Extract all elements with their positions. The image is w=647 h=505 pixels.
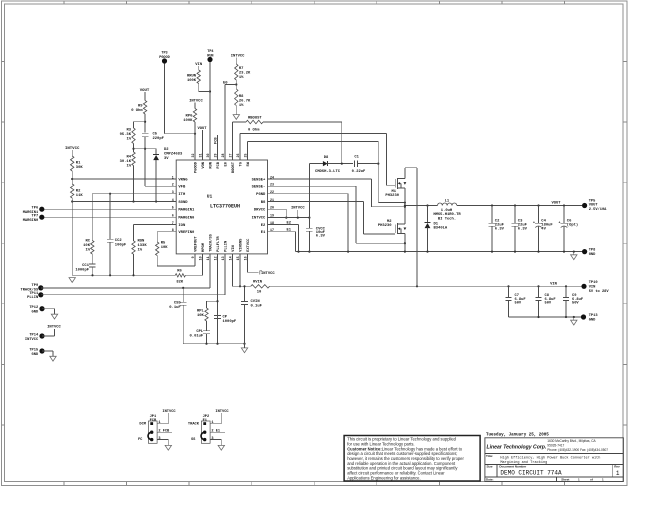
svg-text:0.01uF: 0.01uF xyxy=(190,334,204,338)
svg-text:50V: 50V xyxy=(515,301,522,305)
svg-text:BOOST: BOOST xyxy=(232,161,236,173)
svg-text:CPL: CPL xyxy=(196,330,204,334)
svg-text:Title:: Title: xyxy=(486,454,493,458)
svg-text:30: 30 xyxy=(206,154,210,158)
svg-text:15: 15 xyxy=(236,256,240,260)
svg-text:3V: 3V xyxy=(164,157,169,161)
svg-text:1%: 1% xyxy=(138,249,143,253)
svg-text:INTVCC: INTVCC xyxy=(162,410,176,414)
svg-text:GND: GND xyxy=(589,319,596,323)
svg-text:24: 24 xyxy=(270,175,274,179)
svg-text:1: 1 xyxy=(172,175,174,179)
svg-text:0 Ohm: 0 Ohm xyxy=(248,127,260,132)
svg-text:E2: E2 xyxy=(287,221,292,225)
svg-text:16: 16 xyxy=(244,256,248,260)
svg-text:TP13: TP13 xyxy=(589,314,599,318)
svg-text:2: 2 xyxy=(172,183,174,187)
svg-text:R5: R5 xyxy=(161,242,166,246)
svg-text:CC2: CC2 xyxy=(115,239,123,243)
svg-text:Document Number: Document Number xyxy=(499,465,527,469)
svg-text:FCB: FCB xyxy=(150,419,157,423)
svg-text:1: 1 xyxy=(616,470,620,477)
svg-text:5V to 28V: 5V to 28V xyxy=(589,290,610,294)
svg-text:RON: RON xyxy=(138,240,146,244)
svg-text:RRUN: RRUN xyxy=(187,75,197,79)
svg-text:RPG: RPG xyxy=(186,115,194,119)
svg-text:MARGIN0: MARGIN0 xyxy=(178,217,195,221)
svg-text:E1: E1 xyxy=(287,229,292,233)
svg-text:INTVCC: INTVCC xyxy=(261,272,275,276)
svg-text:100pF: 100pF xyxy=(115,243,127,247)
svg-text:2 E1: 2 E1 xyxy=(211,430,220,434)
svg-text:6.3V: 6.3V xyxy=(518,228,528,232)
svg-text:ION: ION xyxy=(178,224,186,228)
svg-text:50V: 50V xyxy=(572,301,579,305)
svg-text:D2: D2 xyxy=(164,148,169,152)
svg-text:PLLIN: PLLIN xyxy=(27,296,38,300)
svg-text:VOUT: VOUT xyxy=(140,89,150,93)
svg-text:CMDSH-3-LTC: CMDSH-3-LTC xyxy=(315,170,341,174)
svg-text:RVIN: RVIN xyxy=(253,281,263,285)
svg-text:SENSE+: SENSE+ xyxy=(252,178,266,182)
svg-text:INTVCC: INTVCC xyxy=(47,326,61,330)
svg-text:FC: FC xyxy=(138,438,143,442)
svg-text:B340LA: B340LA xyxy=(434,227,448,231)
svg-text:95.3K: 95.3K xyxy=(120,133,132,137)
svg-text:VIN: VIN xyxy=(589,285,596,289)
svg-text:3: 3 xyxy=(158,437,160,441)
svg-text:R1: R1 xyxy=(76,162,81,166)
svg-text:FCB: FCB xyxy=(217,161,221,168)
svg-text:5: 5 xyxy=(172,206,174,210)
svg-text:R7: R7 xyxy=(239,67,244,71)
svg-text:RPL: RPL xyxy=(197,310,205,314)
svg-text:PLLIN: PLLIN xyxy=(225,241,229,252)
svg-text:82K: 82K xyxy=(176,280,184,284)
svg-text:MPGM: MPGM xyxy=(202,242,206,252)
svg-text:R8: R8 xyxy=(239,95,244,99)
svg-text:1%: 1% xyxy=(85,249,90,253)
svg-text:BI Tech.: BI Tech. xyxy=(438,217,456,222)
svg-text:21: 21 xyxy=(270,198,274,202)
svg-text:32: 32 xyxy=(191,154,195,158)
svg-text:C5: C5 xyxy=(153,133,158,137)
svg-text:E0: E0 xyxy=(223,81,228,85)
svg-text:PH3230: PH3230 xyxy=(385,194,399,198)
svg-text:95035-7417: 95035-7417 xyxy=(547,444,564,448)
svg-text:30K: 30K xyxy=(76,166,84,170)
svg-text:INTVCC: INTVCC xyxy=(65,147,80,151)
svg-text:VIN: VIN xyxy=(550,283,558,287)
svg-text:1000pF: 1000pF xyxy=(223,320,237,324)
svg-text:DRVCC: DRVCC xyxy=(254,209,266,213)
svg-text:VOUT: VOUT xyxy=(197,127,207,131)
svg-text:FCB: FCB xyxy=(214,137,218,144)
svg-text:11: 11 xyxy=(206,256,210,260)
svg-text:EXTVCC: EXTVCC xyxy=(247,238,251,252)
svg-text:11K: 11K xyxy=(76,194,84,198)
svg-text:1%: 1% xyxy=(126,165,131,169)
svg-text:18: 18 xyxy=(270,221,274,225)
svg-text:220pF: 220pF xyxy=(153,137,165,141)
svg-text:26.7K: 26.7K xyxy=(239,100,251,104)
svg-text:133K: 133K xyxy=(138,244,148,248)
svg-text:VON: VON xyxy=(202,162,206,169)
svg-text:(Opt): (Opt) xyxy=(567,223,578,228)
svg-text:PGOOD: PGOOD xyxy=(195,161,199,173)
svg-text:R4: R4 xyxy=(126,156,131,160)
svg-text:3: 3 xyxy=(211,437,213,441)
svg-text:Phone: (408)432-1900 Fax: (408: Phone: (408)432-1900 Fax: (408)434-0507 xyxy=(547,448,608,452)
svg-text:1.0uH: 1.0uH xyxy=(441,209,453,213)
svg-text:TRACK/SS: TRACK/SS xyxy=(209,233,214,251)
svg-text:6.3V: 6.3V xyxy=(495,228,505,232)
svg-text:10: 10 xyxy=(257,291,262,295)
svg-text:TP5: TP5 xyxy=(589,199,596,203)
svg-text:PH3230: PH3230 xyxy=(378,224,392,228)
svg-text:0 Ohm: 0 Ohm xyxy=(131,108,143,113)
svg-text:TRACK: TRACK xyxy=(188,423,200,427)
svg-text:8: 8 xyxy=(172,228,174,232)
svg-text:13: 13 xyxy=(221,256,225,260)
svg-text:Linear Technology Corp.: Linear Technology Corp. xyxy=(487,444,547,450)
svg-text:PGND: PGND xyxy=(256,193,266,197)
svg-text:U1: U1 xyxy=(207,194,213,200)
svg-text:TP8: TP8 xyxy=(589,249,596,253)
svg-text:0.22uF: 0.22uF xyxy=(352,170,366,174)
svg-text:3: 3 xyxy=(172,190,174,194)
svg-text:GND: GND xyxy=(32,311,39,315)
svg-text:VOUT: VOUT xyxy=(589,204,599,208)
svg-text:10: 10 xyxy=(199,256,203,260)
svg-text:2.5V/10A: 2.5V/10A xyxy=(589,207,607,212)
svg-text:PGOOD: PGOOD xyxy=(159,56,170,60)
svg-text:INTVCC: INTVCC xyxy=(215,410,229,414)
svg-text:SGND: SGND xyxy=(178,201,188,205)
svg-text:E1: E1 xyxy=(203,419,208,423)
svg-text:20: 20 xyxy=(270,206,274,210)
svg-text:14: 14 xyxy=(229,256,233,260)
svg-text:R6: R6 xyxy=(177,270,182,274)
svg-text:R3: R3 xyxy=(126,129,131,133)
svg-text:INTVCC: INTVCC xyxy=(189,100,203,104)
svg-text:E1: E1 xyxy=(261,231,266,235)
svg-text:TP6: TP6 xyxy=(32,207,39,211)
svg-text:31: 31 xyxy=(199,154,203,158)
svg-text:Rev: Rev xyxy=(614,465,620,469)
svg-text:CVIN: CVIN xyxy=(251,300,261,304)
svg-text:RUN: RUN xyxy=(207,54,213,58)
svg-text:TG: TG xyxy=(240,161,244,166)
svg-text:TP9: TP9 xyxy=(32,284,39,288)
svg-text:DEMO CIRCUIT 774A: DEMO CIRCUIT 774A xyxy=(500,470,562,477)
svg-text:TP15: TP15 xyxy=(29,348,39,352)
svg-text:INTVCC: INTVCC xyxy=(252,217,266,221)
svg-text:of: of xyxy=(590,478,593,482)
svg-text:SENSE-: SENSE- xyxy=(252,186,266,190)
svg-text:TP4: TP4 xyxy=(207,50,213,54)
svg-text:10K: 10K xyxy=(161,246,169,250)
svg-text:Tuesday, January 25, 2005: Tuesday, January 25, 2005 xyxy=(486,433,549,438)
svg-text:1: 1 xyxy=(211,421,213,425)
svg-text:INTVCC: INTVCC xyxy=(231,55,245,59)
svg-text:C1: C1 xyxy=(354,156,359,160)
svg-text:12: 12 xyxy=(214,256,218,260)
svg-text:17: 17 xyxy=(270,228,274,232)
svg-text:22: 22 xyxy=(270,190,274,194)
svg-text:RC: RC xyxy=(85,240,90,244)
svg-text:50V: 50V xyxy=(545,301,552,305)
svg-text:High Efficiency, High Power Bu: High Efficiency, High Power Buck Convert… xyxy=(500,456,600,461)
svg-text:PLLFLTR: PLLFLTR xyxy=(217,236,221,252)
svg-text:TP11: TP11 xyxy=(29,292,39,296)
svg-text:RUN: RUN xyxy=(210,162,214,169)
svg-text:7: 7 xyxy=(172,221,174,225)
svg-text:Date:: Date: xyxy=(486,478,494,482)
svg-text:VIN: VIN xyxy=(195,63,203,67)
svg-text:6.3V: 6.3V xyxy=(316,235,326,239)
svg-text:26: 26 xyxy=(236,154,240,158)
svg-text:E0: E0 xyxy=(225,162,229,166)
svg-text:1630 McCarthy Blvd., Milpitas,: 1630 McCarthy Blvd., Milpitas, CA xyxy=(547,439,596,443)
svg-text:MARGIN1: MARGIN1 xyxy=(178,209,195,213)
svg-text:VINSNS: VINSNS xyxy=(240,238,244,252)
svg-text:TP7: TP7 xyxy=(32,215,39,219)
svg-text:+: + xyxy=(559,221,561,225)
svg-text:Sheet: Sheet xyxy=(561,478,569,482)
svg-text:CC1: CC1 xyxy=(82,264,90,268)
svg-text:INTVCC: INTVCC xyxy=(291,207,305,211)
svg-text:2 FCB: 2 FCB xyxy=(158,430,170,434)
svg-text:25: 25 xyxy=(244,154,248,158)
svg-text:DCM: DCM xyxy=(139,423,146,427)
svg-text:RBOOST: RBOOST xyxy=(248,117,262,121)
svg-text:TP12: TP12 xyxy=(29,306,38,310)
svg-text:100K: 100K xyxy=(183,119,193,123)
svg-text:GND: GND xyxy=(32,353,39,357)
svg-text:+: + xyxy=(533,221,535,225)
svg-text:23.2K: 23.2K xyxy=(239,71,251,75)
svg-text:0.1uF: 0.1uF xyxy=(251,304,263,308)
svg-text:30.1K: 30.1K xyxy=(120,160,132,164)
svg-text:19: 19 xyxy=(270,214,274,218)
svg-text:TP3: TP3 xyxy=(161,52,167,56)
svg-text:VREFOUT: VREFOUT xyxy=(195,236,199,252)
svg-text:Applications Engineering for a: Applications Engineering for assistance. xyxy=(347,475,420,480)
svg-text:6: 6 xyxy=(172,214,174,218)
svg-text:VFB: VFB xyxy=(178,186,186,190)
svg-text:9: 9 xyxy=(191,256,195,258)
svg-text:R2: R2 xyxy=(76,190,81,194)
svg-text:LTC3770EUH: LTC3770EUH xyxy=(210,204,240,210)
svg-text:VRNG: VRNG xyxy=(178,178,188,182)
svg-text:4V: 4V xyxy=(541,228,546,232)
svg-text:27: 27 xyxy=(229,154,233,158)
svg-text:VIN: VIN xyxy=(232,245,236,252)
svg-text:10K: 10K xyxy=(197,314,205,318)
svg-text:SS: SS xyxy=(191,438,196,442)
svg-text:TP10: TP10 xyxy=(589,281,598,285)
svg-text:1%: 1% xyxy=(239,104,244,108)
svg-text:1000pF: 1000pF xyxy=(75,269,89,273)
svg-text:VREFIN0: VREFIN0 xyxy=(178,231,195,235)
svg-text:28: 28 xyxy=(221,154,225,158)
svg-text:TP14: TP14 xyxy=(29,333,39,337)
svg-text:29: 29 xyxy=(214,154,218,158)
svg-text:MARGIN0: MARGIN0 xyxy=(23,219,39,223)
svg-text:1: 1 xyxy=(158,421,160,425)
svg-text:D8: D8 xyxy=(324,156,329,160)
svg-text:0.1uF: 0.1uF xyxy=(169,306,181,310)
svg-text:BG: BG xyxy=(261,201,266,205)
svg-text:R9: R9 xyxy=(138,105,143,109)
svg-text:INTVCC: INTVCC xyxy=(25,338,39,342)
svg-text:Size: Size xyxy=(487,465,493,469)
svg-text:23: 23 xyxy=(270,183,274,187)
svg-text:1%: 1% xyxy=(126,138,131,142)
svg-text:CSS: CSS xyxy=(174,302,182,306)
svg-text:SW: SW xyxy=(247,161,251,166)
svg-text:GND: GND xyxy=(589,253,596,257)
svg-text:CP: CP xyxy=(223,315,228,319)
svg-text:E2: E2 xyxy=(261,224,266,228)
svg-text:100K: 100K xyxy=(187,79,197,83)
svg-text:ITH: ITH xyxy=(178,193,186,197)
svg-text:1%: 1% xyxy=(239,76,244,80)
svg-text:10K: 10K xyxy=(83,244,91,248)
svg-text:VOUT: VOUT xyxy=(551,202,561,206)
svg-text:L1: L1 xyxy=(445,200,450,204)
svg-text:4: 4 xyxy=(172,198,174,202)
